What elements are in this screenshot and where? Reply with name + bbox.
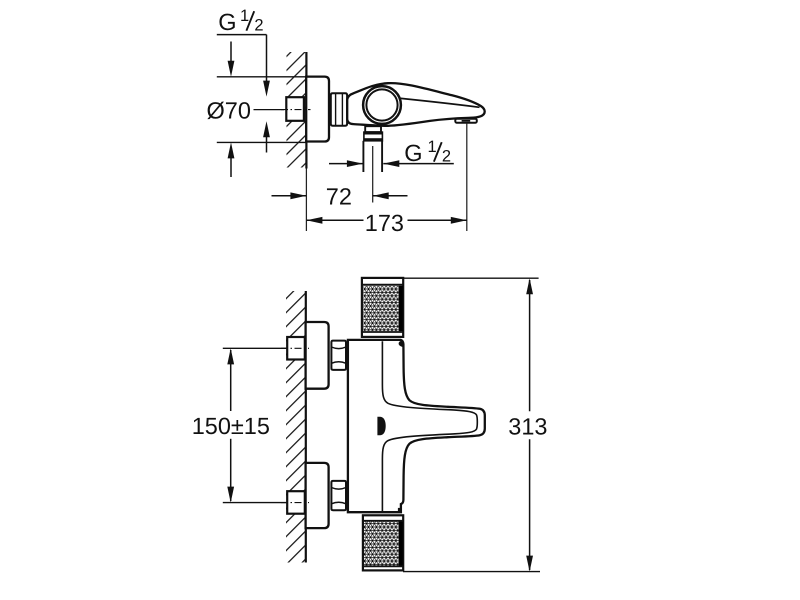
- svg-text:G: G: [218, 9, 236, 35]
- svg-text:Ø70: Ø70: [207, 97, 251, 123]
- svg-text:150±15: 150±15: [192, 413, 270, 439]
- svg-text:2: 2: [254, 17, 263, 35]
- svg-text:1: 1: [240, 7, 249, 25]
- svg-text:313: 313: [508, 414, 547, 440]
- svg-text:72: 72: [326, 184, 352, 210]
- svg-text:1: 1: [428, 138, 437, 156]
- svg-text:173: 173: [365, 210, 404, 236]
- svg-text:G: G: [404, 140, 422, 166]
